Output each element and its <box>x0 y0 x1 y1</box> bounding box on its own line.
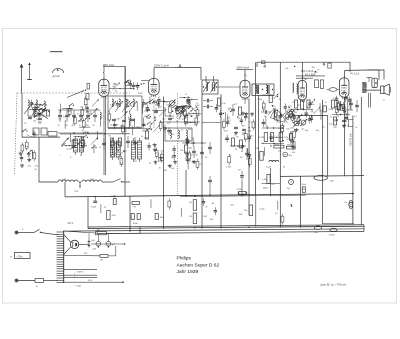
value label <box>181 111 186 113</box>
wire v1 top stub <box>153 68 155 78</box>
wire T3 down b <box>370 93 372 108</box>
svg-text:10k: 10k <box>171 134 174 136</box>
trimmer cap CT12 <box>159 109 166 116</box>
switch mains S2 <box>34 229 41 233</box>
resistor R20 <box>196 107 199 118</box>
wire stub <box>136 102 138 111</box>
junction <box>187 115 188 116</box>
value label <box>166 105 169 107</box>
dotted AVC line <box>177 93 179 196</box>
wire v327 <box>327 116 329 177</box>
junction <box>154 116 155 117</box>
junction <box>176 113 177 114</box>
capacitor Cg3 <box>242 129 246 130</box>
svg-text:230V 8mA: 230V 8mA <box>237 66 250 70</box>
svg-text:50k: 50k <box>340 110 343 112</box>
svg-text:2k: 2k <box>205 207 207 209</box>
value label <box>89 114 93 116</box>
text 795 vertical <box>350 133 353 146</box>
capacitor C42 <box>132 82 135 90</box>
resistor R14 <box>159 120 162 131</box>
svg-text:1k: 1k <box>146 102 148 104</box>
capacitor C36 <box>202 198 205 206</box>
svg-text:40k: 40k <box>159 106 162 108</box>
resistor Rb2 <box>82 140 85 147</box>
component box on HT bus 2 <box>262 61 266 64</box>
svg-text:1,5k: 1,5k <box>222 103 226 105</box>
junction <box>282 140 283 141</box>
value label <box>230 205 233 207</box>
wire stub <box>142 104 144 113</box>
switch band lever <box>67 90 86 98</box>
ground E12 <box>185 141 189 145</box>
resistor R18 <box>183 108 186 119</box>
value label <box>67 149 73 151</box>
capacitor C18 <box>248 151 251 159</box>
wire psu bottom <box>64 281 124 287</box>
value label <box>241 151 244 153</box>
label e2 <box>190 161 202 166</box>
svg-text:0,1M: 0,1M <box>110 105 115 107</box>
resistor R36 <box>337 101 340 112</box>
svg-text:0,5M: 0,5M <box>258 99 263 101</box>
ground E7 <box>168 164 172 168</box>
wire v258 <box>258 95 260 180</box>
wire osc bottom <box>108 128 142 130</box>
junction dots chassis <box>129 226 301 229</box>
wire v88 <box>87 197 89 229</box>
value label <box>311 110 313 112</box>
value label <box>185 158 188 160</box>
capacitor C9 <box>167 127 170 135</box>
value label <box>82 130 84 132</box>
transformer output T3 winding <box>372 78 377 87</box>
resistor R29 <box>262 101 265 112</box>
wire link <box>73 136 84 137</box>
capacitor C20 <box>241 142 244 150</box>
svg-text:AZ 1: AZ 1 <box>68 221 74 225</box>
capacitor C27 <box>293 114 296 122</box>
svg-text:8k: 8k <box>283 167 285 169</box>
capacitor C15 <box>186 156 189 164</box>
wire v125 <box>124 67 126 197</box>
value label <box>88 111 92 113</box>
wire v249 <box>248 98 250 215</box>
svg-text:8k: 8k <box>96 109 98 111</box>
wire mains L1 <box>15 231 34 234</box>
capacitor Ck2 <box>238 170 244 182</box>
resistor R15 <box>184 115 187 126</box>
wire stub <box>265 116 267 125</box>
label Cb4 <box>79 125 82 127</box>
svg-text:4k: 4k <box>70 109 72 111</box>
value label <box>125 131 128 133</box>
value label <box>194 125 197 127</box>
wire psu line2b <box>108 246 116 256</box>
value label <box>162 101 165 103</box>
component box sw b <box>86 94 89 100</box>
wire output top <box>345 70 379 80</box>
junction <box>291 204 292 205</box>
wire left frame <box>21 93 23 137</box>
resistor Rh4 <box>279 133 288 142</box>
label i2 <box>293 111 309 116</box>
value label <box>261 143 264 145</box>
svg-text:8k: 8k <box>212 203 214 205</box>
svg-text:47k: 47k <box>183 106 186 108</box>
capacitor Ck3 elco <box>287 180 294 191</box>
gnd i1 <box>295 128 299 132</box>
svg-text:47k: 47k <box>189 216 192 218</box>
value label <box>298 105 302 107</box>
resistor Rg2 <box>232 138 235 146</box>
svg-text:5k: 5k <box>191 115 193 117</box>
value label <box>130 106 132 108</box>
svg-text:1k: 1k <box>141 136 143 138</box>
svg-text:0,1M: 0,1M <box>115 118 120 120</box>
value label <box>144 137 149 139</box>
inductor Ld1 <box>189 100 190 107</box>
value label <box>164 170 167 172</box>
capacitor C51 <box>219 110 222 118</box>
wire heater tap c <box>64 278 97 282</box>
wire stub <box>224 112 226 121</box>
svg-text:1M: 1M <box>100 260 103 262</box>
svg-text:50k: 50k <box>230 205 233 207</box>
switch contact S21 <box>149 99 154 102</box>
capacitor C24 <box>284 103 287 111</box>
trimmer cap CT22 <box>268 108 275 115</box>
svg-text:0,25M: 0,25M <box>259 137 265 139</box>
wire link <box>152 110 163 111</box>
value label <box>202 216 207 218</box>
svg-text:48kΩ: 48kΩ <box>263 188 268 190</box>
antenna A1 <box>20 64 24 93</box>
value label <box>224 130 228 132</box>
label psu v <box>84 253 88 255</box>
capacitor C11 <box>172 152 175 160</box>
wire v4 pin stub <box>347 97 349 120</box>
capacitor ant C2 <box>38 118 42 119</box>
value label <box>275 213 278 215</box>
inductor Lh1 <box>269 160 279 162</box>
switch contact S4 <box>28 150 33 153</box>
capacitor Ce2 <box>203 105 213 109</box>
value label <box>155 109 157 111</box>
trimmer Pi1 <box>300 119 307 126</box>
capacitor C6 <box>113 121 116 129</box>
svg-text:2k: 2k <box>235 149 237 151</box>
capacitor C40 <box>128 80 131 88</box>
value label <box>249 122 252 124</box>
capacitor C2 <box>30 99 33 107</box>
ground E8 <box>159 156 163 160</box>
gnd j1 <box>342 124 346 128</box>
resistor R27 <box>290 131 293 142</box>
resistor R26 <box>291 138 294 149</box>
value label <box>205 207 207 209</box>
value label <box>225 139 230 141</box>
trimmer osc arrow4 <box>129 101 137 112</box>
svg-text:10k: 10k <box>228 108 231 110</box>
switch S1d <box>91 145 96 148</box>
value label <box>188 129 192 131</box>
wire chassis bus 1 <box>88 226 364 228</box>
value label <box>264 116 266 118</box>
value label <box>191 154 194 156</box>
trimmer cap CT2 <box>92 99 99 106</box>
capacitor Co2 <box>122 120 126 121</box>
value label <box>285 68 288 70</box>
wire 98V drop <box>124 67 126 116</box>
wire stub <box>70 133 72 142</box>
svg-text:1kW: 1kW <box>160 217 164 219</box>
value label <box>344 124 346 126</box>
capacitor C33 <box>344 94 347 102</box>
svg-text:1M: 1M <box>292 102 295 104</box>
svg-text:8k: 8k <box>337 115 339 117</box>
wire v344 <box>344 97 346 176</box>
value label <box>136 126 140 128</box>
svg-text:40V 1,2mA: 40V 1,2mA <box>301 70 314 73</box>
inductor L1 <box>35 104 36 116</box>
svg-text:0,1µF: 0,1µF <box>266 167 272 169</box>
resistor Rg3 <box>235 140 243 151</box>
resistor R40 <box>228 154 231 165</box>
value label <box>239 214 243 216</box>
svg-text:4k: 4k <box>72 125 74 127</box>
label osc2 <box>123 151 127 153</box>
trimmer cap CT15 <box>314 107 321 114</box>
svg-text:(ges.Bl. ca. / 472cm): (ges.Bl. ca. / 472cm) <box>321 282 347 286</box>
ground E13 <box>185 138 189 142</box>
resistor R32 <box>281 123 284 134</box>
svg-text:0,1M: 0,1M <box>329 109 334 111</box>
junction <box>86 111 87 112</box>
wire stub <box>93 144 95 153</box>
trimmer cap CT16 <box>294 119 301 126</box>
transformer winding W1b <box>116 138 120 160</box>
capacitor Co4 <box>126 136 130 148</box>
resistor Ro2 <box>118 138 121 146</box>
wire psu v108 <box>107 234 109 242</box>
trimmer cap CT8 <box>112 150 119 157</box>
inductor L osc a <box>58 179 78 182</box>
switch contact S8 <box>83 135 88 138</box>
capacitor C7 <box>116 100 119 108</box>
wire band section top <box>58 109 100 111</box>
svg-text:1k: 1k <box>130 106 132 108</box>
wire v270 <box>270 168 272 196</box>
capacitor C-el2 <box>93 241 101 250</box>
resistor R11 <box>120 156 123 167</box>
wire stub <box>143 118 145 127</box>
wire stub <box>124 111 126 120</box>
resistor R23 <box>252 119 255 130</box>
value label <box>42 110 45 112</box>
svg-text:12k: 12k <box>155 110 158 112</box>
resistor Ri4 <box>323 106 333 112</box>
resistor Rb1 <box>72 140 81 147</box>
svg-text:8k: 8k <box>186 156 188 158</box>
junction <box>294 66 295 67</box>
resistor Rh5 <box>274 144 284 148</box>
junction <box>345 111 346 112</box>
resistor R19 <box>195 116 198 127</box>
switch contact S19 <box>154 100 159 103</box>
capacitor Cb5 <box>86 110 90 122</box>
wire screen row b <box>296 77 313 79</box>
svg-text:2k: 2k <box>121 126 123 128</box>
resistor Rk5 <box>133 214 140 226</box>
resistor Rh6 <box>286 145 295 150</box>
svg-text:10k: 10k <box>316 130 319 132</box>
junction <box>291 205 292 206</box>
junction <box>141 83 142 84</box>
svg-text:1n: 1n <box>82 130 84 132</box>
value label <box>278 151 282 153</box>
value label <box>155 105 159 107</box>
value label <box>337 109 340 111</box>
ground E2 <box>19 152 23 156</box>
wire band section mid <box>58 132 103 134</box>
svg-text:2M: 2M <box>287 145 290 147</box>
trimmer CT2 <box>178 108 185 115</box>
wire link <box>31 104 42 105</box>
capacitor Cb7 <box>102 138 106 150</box>
trimmer cap CT6 <box>62 138 69 145</box>
svg-text:10k: 10k <box>58 118 61 120</box>
svg-text:0,1µF: 0,1µF <box>259 208 265 210</box>
inductor primary choke <box>327 88 340 92</box>
inductor Lo1 <box>112 99 113 107</box>
svg-text:47k: 47k <box>189 202 192 204</box>
value label <box>186 100 188 102</box>
svg-text:2k: 2k <box>38 105 40 107</box>
label ant values <box>24 123 42 125</box>
tube V3 EBL <box>298 79 306 102</box>
node 4V label <box>350 72 359 76</box>
value label <box>108 136 111 138</box>
label Cb6 <box>93 125 96 127</box>
wire g link <box>230 145 246 147</box>
value label <box>80 137 83 139</box>
wire speaker line <box>362 89 381 91</box>
wire v322 <box>322 100 324 224</box>
svg-text:12k: 12k <box>314 72 317 74</box>
trimmer cap CT21 <box>285 109 292 116</box>
IF transformer T1 box <box>202 76 218 94</box>
value label <box>114 84 117 86</box>
capacitor osc knot scribble <box>174 105 189 118</box>
wire v105 <box>105 96 107 175</box>
switch contact S12 <box>146 114 151 117</box>
wire stub <box>100 204 102 213</box>
value label <box>276 122 280 124</box>
label Cb3 <box>72 125 74 127</box>
resistor Rk3 <box>107 211 116 220</box>
value label <box>182 112 185 114</box>
capacitor C13 <box>172 145 175 153</box>
value label <box>171 134 174 136</box>
switch contact S2 <box>42 103 47 106</box>
resistor Rk9 <box>237 189 248 194</box>
capacitor C35 <box>339 101 342 109</box>
inductor L3 <box>129 117 130 129</box>
wire link <box>186 122 197 123</box>
capacitor C48 <box>157 100 160 108</box>
svg-text:12k: 12k <box>195 155 198 157</box>
wire stub <box>247 148 249 157</box>
transformer winding W1a <box>111 138 115 160</box>
trimmer osc arrow2 <box>115 101 123 112</box>
wire link <box>187 99 198 100</box>
label fuse <box>36 286 38 288</box>
value label <box>286 128 289 130</box>
wire stub <box>133 118 135 127</box>
wire T3 top feed <box>368 70 384 80</box>
value label <box>292 102 295 104</box>
capacitor C1 <box>37 110 40 118</box>
wire v65 <box>64 182 66 197</box>
capacitor Co5 <box>133 137 137 149</box>
inductor ant L1 <box>28 100 29 108</box>
value label <box>244 138 246 140</box>
capacitor C-el1 <box>88 240 96 248</box>
junction <box>189 106 190 107</box>
capacitor C3 <box>20 154 23 162</box>
svg-text:1,1M: 1,1M <box>262 179 267 181</box>
capacitor Ce4 <box>200 147 204 159</box>
svg-text:0,1µF: 0,1µF <box>286 117 292 119</box>
speaker LS <box>381 84 391 102</box>
capacitor Cg1 <box>231 104 235 116</box>
wire v4 top stub <box>344 70 346 78</box>
svg-text:3k: 3k <box>244 138 246 140</box>
value label <box>147 118 151 120</box>
value label <box>80 106 83 108</box>
svg-text:8k: 8k <box>291 141 293 143</box>
gnd g1 <box>234 131 238 135</box>
trimmer cap CT18 <box>176 111 183 118</box>
value label <box>273 112 276 114</box>
value label <box>272 106 276 108</box>
resistor R21 <box>188 150 191 161</box>
capacitor C5 <box>85 104 88 112</box>
value label <box>333 127 337 129</box>
svg-text:7,25Ω: 7,25Ω <box>329 234 335 236</box>
label trafo 230 <box>77 270 84 273</box>
svg-text:2k: 2k <box>205 157 207 159</box>
junction <box>270 145 271 146</box>
wire V2 bottom <box>244 98 246 104</box>
value label <box>147 118 151 120</box>
value label <box>215 108 218 110</box>
junction <box>184 109 185 110</box>
resistor Ro1 <box>110 138 118 146</box>
switch contact S17 <box>126 80 131 83</box>
value label <box>33 121 37 123</box>
value label <box>228 108 231 110</box>
label plus mark V2 <box>244 75 247 77</box>
junction <box>182 108 183 109</box>
junction <box>172 111 173 112</box>
svg-text:0,1µF: 0,1µF <box>91 207 97 209</box>
capacitor C46 <box>226 119 229 127</box>
capacitor ant C1 <box>28 117 32 118</box>
value label <box>129 123 131 125</box>
capacitor C45 <box>146 104 149 112</box>
